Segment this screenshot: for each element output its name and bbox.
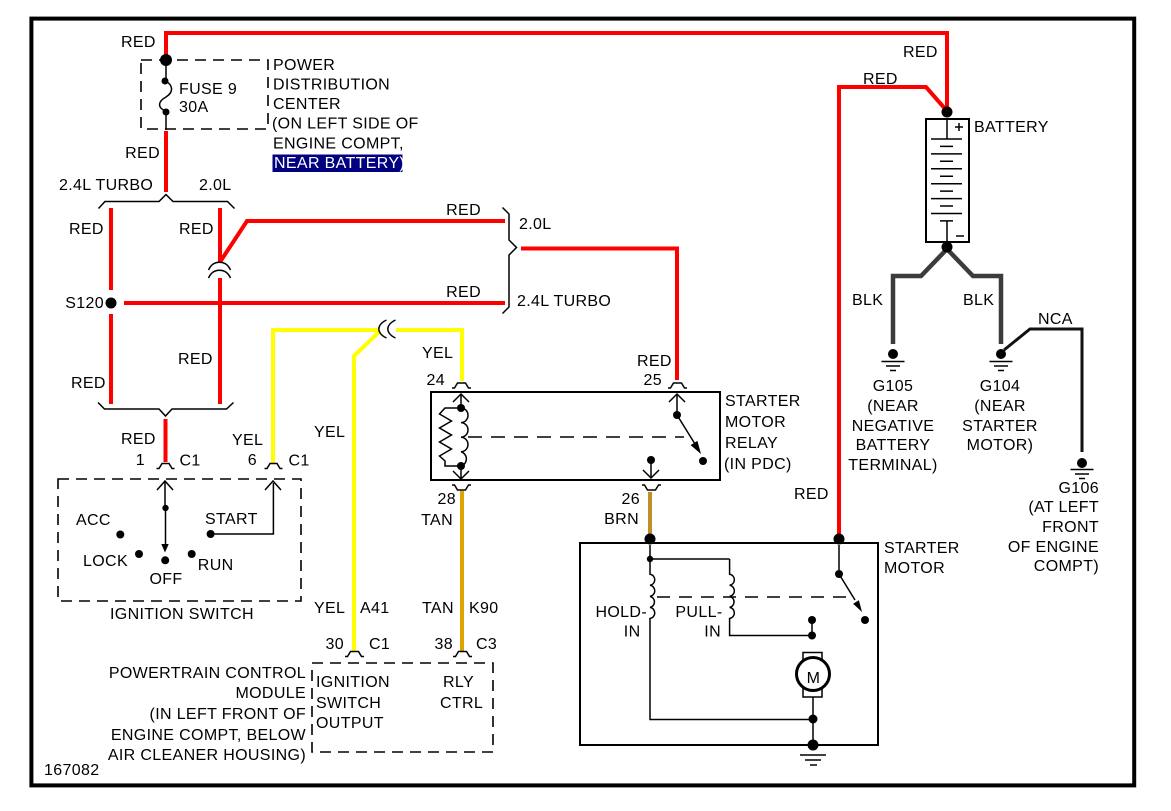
- svg-text:30: 30: [326, 636, 345, 653]
- svg-text:YEL: YEL: [314, 424, 345, 441]
- svg-text:BATTERY: BATTERY: [974, 119, 1049, 136]
- svg-text:2.4L TURBO: 2.4L TURBO: [59, 177, 153, 194]
- svg-text:28: 28: [438, 491, 457, 508]
- svg-text:AIR CLEANER HOUSING): AIR CLEANER HOUSING): [108, 747, 306, 764]
- svg-text:IGNITION SWITCH: IGNITION SWITCH: [110, 606, 254, 623]
- svg-text:2.0L: 2.0L: [519, 216, 552, 233]
- svg-text:NEGATIVE: NEGATIVE: [852, 418, 935, 435]
- svg-text:IGNITION: IGNITION: [316, 674, 390, 691]
- svg-text:YEL: YEL: [314, 600, 345, 617]
- svg-text:RED: RED: [903, 44, 938, 61]
- svg-text:1: 1: [136, 452, 145, 469]
- svg-text:BRN: BRN: [604, 511, 639, 528]
- svg-text:RED: RED: [71, 375, 106, 392]
- svg-text:ACC: ACC: [76, 512, 111, 529]
- svg-text:(ON LEFT SIDE OF: (ON LEFT SIDE OF: [272, 116, 419, 133]
- svg-text:IN: IN: [704, 624, 721, 641]
- svg-text:RED: RED: [121, 431, 156, 448]
- svg-text:FRONT: FRONT: [1042, 519, 1099, 536]
- svg-text:C3: C3: [476, 636, 497, 653]
- svg-text:POWERTRAIN CONTROL: POWERTRAIN CONTROL: [109, 665, 306, 682]
- svg-text:DISTRIBUTION: DISTRIBUTION: [273, 77, 390, 94]
- svg-text:MOTOR: MOTOR: [884, 560, 945, 577]
- svg-text:SWITCH: SWITCH: [316, 695, 381, 712]
- svg-text:(IN PDC): (IN PDC): [724, 456, 792, 473]
- svg-text:(AT LEFT: (AT LEFT: [1028, 499, 1099, 516]
- svg-text:YEL: YEL: [422, 345, 453, 362]
- svg-text:K90: K90: [469, 600, 499, 617]
- svg-text:(IN LEFT FRONT OF: (IN LEFT FRONT OF: [150, 706, 306, 723]
- svg-text:RED: RED: [794, 486, 829, 503]
- svg-text:PULL-: PULL-: [675, 604, 722, 621]
- svg-text:TERMINAL): TERMINAL): [848, 457, 937, 474]
- svg-text:BLK: BLK: [852, 292, 883, 309]
- svg-text:RUN: RUN: [198, 557, 234, 574]
- svg-text:RED: RED: [179, 221, 214, 238]
- svg-text:YEL: YEL: [232, 432, 263, 449]
- svg-text:STARTER: STARTER: [962, 418, 1038, 435]
- svg-text:ENGINE COMPT,: ENGINE COMPT,: [273, 135, 404, 152]
- svg-text:RED: RED: [125, 145, 160, 162]
- svg-text:NCA: NCA: [1038, 311, 1073, 328]
- svg-text:BLK: BLK: [963, 292, 994, 309]
- svg-text:RED: RED: [121, 34, 156, 51]
- svg-text:MODULE: MODULE: [235, 685, 306, 702]
- svg-text:(NEAR: (NEAR: [974, 398, 1026, 415]
- svg-text:OF ENGINE: OF ENGINE: [1008, 539, 1099, 556]
- svg-text:(NEAR: (NEAR: [867, 398, 919, 415]
- svg-text:2.0L: 2.0L: [199, 177, 232, 194]
- svg-text:30A: 30A: [179, 99, 209, 116]
- svg-text:A41: A41: [360, 600, 390, 617]
- svg-text:BATTERY: BATTERY: [856, 437, 931, 454]
- svg-text:S120: S120: [65, 295, 104, 312]
- svg-text:RED: RED: [446, 202, 481, 219]
- svg-text:RED: RED: [863, 71, 898, 88]
- svg-text:G106: G106: [1058, 480, 1099, 497]
- svg-text:25: 25: [644, 372, 663, 389]
- svg-text:RED: RED: [69, 221, 104, 238]
- svg-text:START: START: [205, 511, 258, 528]
- svg-text:LOCK: LOCK: [83, 553, 128, 570]
- svg-text:OUTPUT: OUTPUT: [316, 715, 384, 732]
- svg-text:RED: RED: [446, 284, 481, 301]
- svg-text:MOTOR: MOTOR: [725, 414, 786, 431]
- svg-text:C1: C1: [180, 453, 201, 470]
- svg-text:C1: C1: [369, 636, 390, 653]
- svg-text:STARTER: STARTER: [884, 540, 960, 557]
- svg-text:C1: C1: [289, 453, 310, 470]
- svg-text:RELAY: RELAY: [725, 435, 778, 452]
- svg-text:RLY: RLY: [443, 674, 474, 691]
- svg-text:G104: G104: [980, 378, 1021, 395]
- svg-text:TAN: TAN: [422, 600, 454, 617]
- svg-text:RED: RED: [637, 353, 672, 370]
- svg-text:RED: RED: [178, 351, 213, 368]
- svg-text:IN: IN: [624, 624, 641, 641]
- svg-text:OFF: OFF: [149, 571, 182, 588]
- svg-text:ENGINE COMPT, BELOW: ENGINE COMPT, BELOW: [111, 727, 307, 744]
- svg-text:CTRL: CTRL: [440, 695, 483, 712]
- svg-text:NEAR BATTERY): NEAR BATTERY): [274, 155, 405, 172]
- svg-text:M: M: [807, 670, 821, 687]
- svg-text:38: 38: [435, 636, 454, 653]
- svg-text:FUSE 9: FUSE 9: [179, 81, 237, 98]
- svg-text:167082: 167082: [44, 762, 100, 779]
- svg-text:STARTER: STARTER: [725, 393, 801, 410]
- svg-text:26: 26: [622, 491, 641, 508]
- svg-text:6: 6: [248, 452, 257, 469]
- svg-text:POWER: POWER: [273, 57, 335, 74]
- svg-text:TAN: TAN: [421, 512, 453, 529]
- svg-text:CENTER: CENTER: [273, 96, 341, 113]
- svg-text:MOTOR): MOTOR): [967, 437, 1034, 454]
- svg-text:HOLD-: HOLD-: [595, 604, 647, 621]
- svg-text:2.4L TURBO: 2.4L TURBO: [517, 293, 611, 310]
- svg-text:24: 24: [427, 372, 446, 389]
- svg-text:COMPT): COMPT): [1034, 558, 1099, 575]
- svg-text:G105: G105: [873, 378, 914, 395]
